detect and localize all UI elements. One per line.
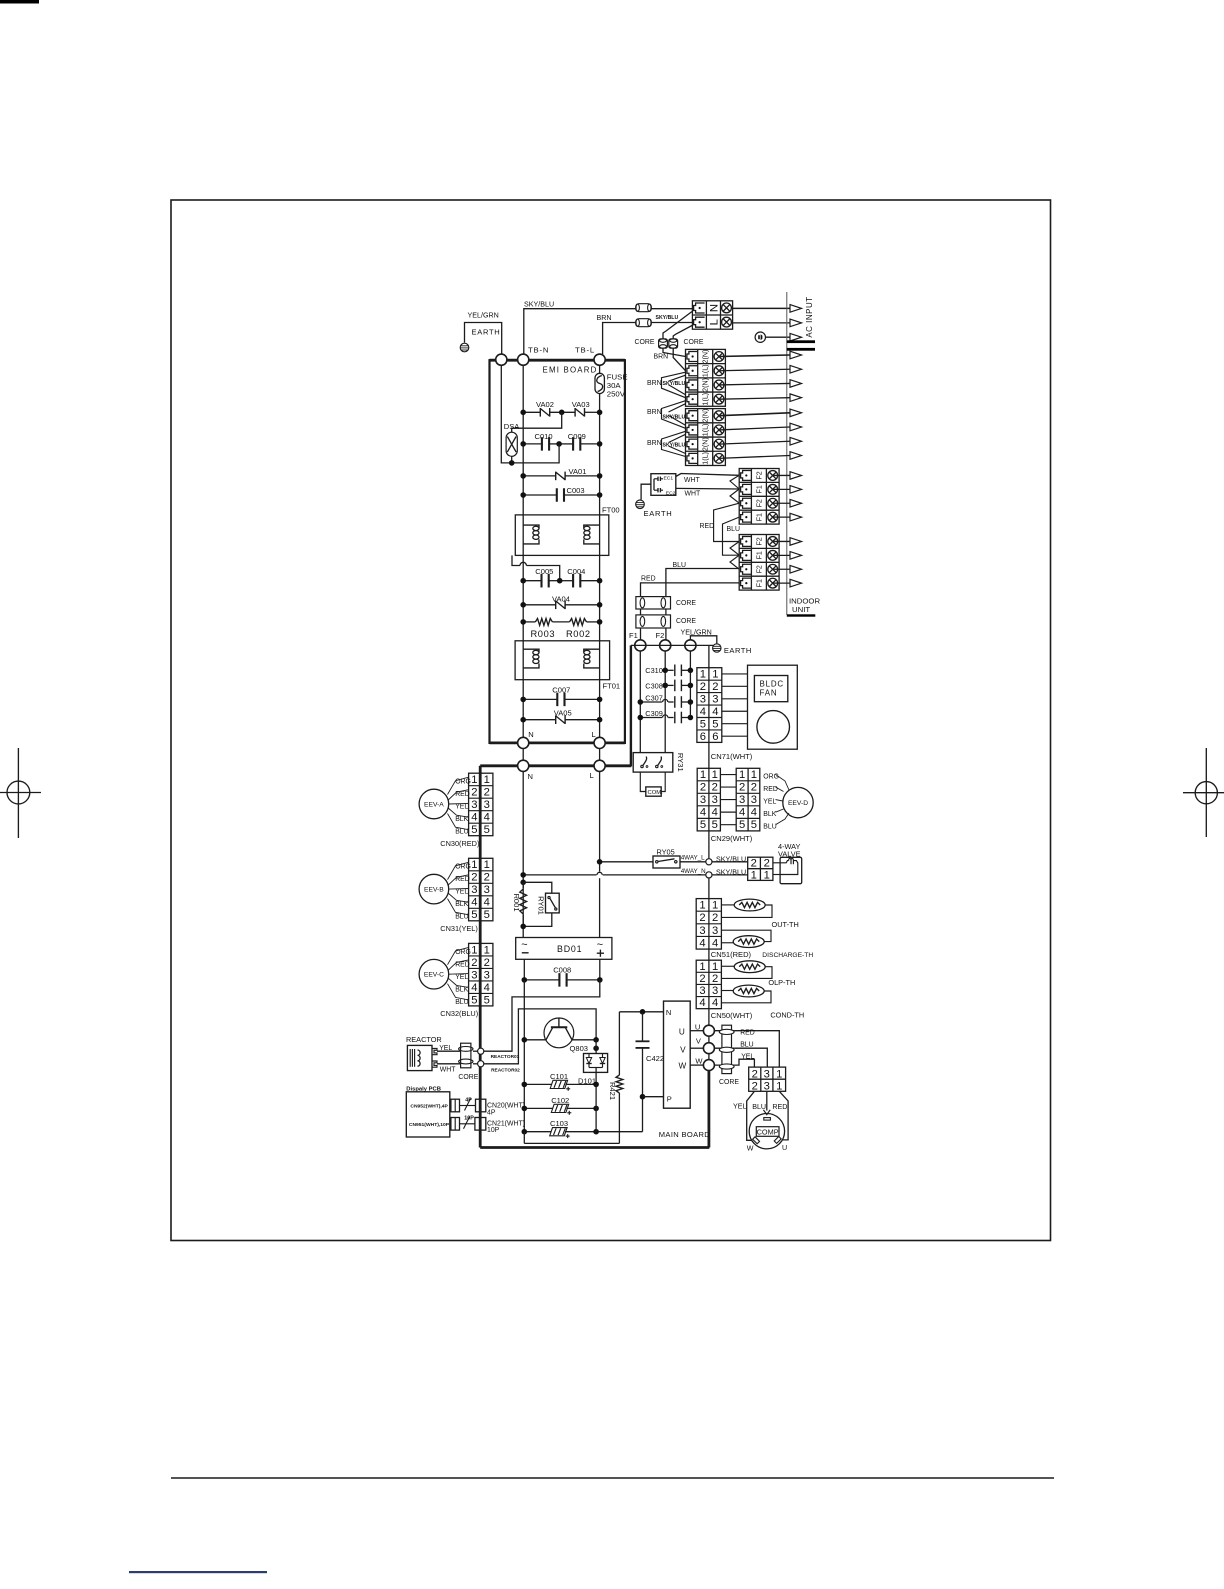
motor EEV-C with connector CN32(BLU) (469, 943, 493, 1006)
wire rail CN50 to U circle (708, 1009, 710, 1025)
wire L rail EMI upper (599, 365, 601, 373)
wire R421 to inverter N (619, 1011, 663, 1013)
wires EEV-D to labels (776, 774, 790, 790)
svg-text:BLK: BLK (763, 811, 776, 818)
main board top edge (480, 764, 631, 767)
wire BRN to block A row1 (663, 348, 686, 357)
svg-text:U: U (782, 1144, 787, 1152)
svg-text:4P: 4P (487, 1109, 496, 1116)
choke FT00 (515, 515, 609, 556)
svg-text:5: 5 (484, 824, 490, 836)
svg-text:BLDC: BLDC (760, 680, 785, 689)
svg-text:DISCHARGE-TH: DISCHARGE-TH (762, 952, 813, 959)
resistor R421 (618, 1012, 620, 1075)
F terminal block 2 (739, 535, 779, 591)
svg-text:2: 2 (764, 858, 770, 870)
page corner bar (0, 0, 39, 4)
thick bar lower (787, 348, 815, 351)
main board left edge (479, 766, 482, 1148)
svg-text:F2: F2 (755, 565, 763, 573)
links CN29 connectors (720, 774, 736, 776)
wires RY31 to COM (640, 772, 646, 791)
svg-text:BLU: BLU (727, 526, 740, 533)
svg-text:ORG: ORG (455, 949, 471, 956)
wires node to 4way terminal (712, 861, 748, 863)
svg-text:2: 2 (752, 1068, 758, 1080)
svg-text:P: P (667, 1095, 672, 1104)
wire crosslinks F block2 (730, 542, 739, 556)
svg-text:2: 2 (699, 973, 705, 985)
svg-text:YEL: YEL (741, 1054, 754, 1061)
capacitor C005 (540, 574, 542, 588)
svg-text:4: 4 (751, 807, 757, 819)
svg-text:1: 1 (764, 869, 770, 881)
svg-text:RY31: RY31 (676, 753, 685, 772)
wire 4P bus (460, 1105, 476, 1107)
wire YEL/GRN to earth (690, 636, 716, 644)
svg-text:R003: R003 (531, 629, 556, 639)
svg-text:R002: R002 (566, 629, 591, 639)
resistor R001 (522, 882, 524, 888)
svg-text:6: 6 (700, 731, 706, 743)
svg-text:1: 1 (776, 1068, 782, 1080)
wire N rail to BD01 (522, 772, 524, 938)
svg-text:1: 1 (712, 769, 718, 781)
capacitor C101 (524, 1083, 552, 1085)
display pcb box (406, 1092, 450, 1137)
svg-text:5: 5 (471, 994, 477, 1006)
svg-text:R001: R001 (512, 893, 521, 911)
wire RED inter-block (714, 503, 740, 541)
svg-text:5: 5 (484, 909, 490, 921)
node 4way L (706, 859, 712, 865)
svg-text:4: 4 (712, 706, 718, 718)
svg-text:2(N): 2(N) (702, 409, 710, 423)
svg-text:C422: C422 (646, 1054, 664, 1063)
svg-text:EC1: EC1 (664, 475, 674, 481)
indoor terminal block B (686, 409, 726, 466)
svg-text:Q803: Q803 (570, 1044, 588, 1053)
svg-text:C003: C003 (567, 486, 585, 495)
svg-text:SKY/BLU: SKY/BLU (524, 300, 554, 308)
connector CN29 board side (697, 768, 720, 831)
svg-text:BRN: BRN (647, 440, 662, 447)
svg-text:1: 1 (471, 774, 477, 786)
svg-text:1: 1 (471, 859, 477, 871)
svg-text:L: L (590, 771, 594, 780)
svg-text:6: 6 (712, 731, 718, 743)
svg-text:2: 2 (471, 787, 477, 799)
terminal TB-L circle (594, 354, 605, 365)
svg-text:TB-N: TB-N (528, 345, 549, 354)
wire EC box to earth (641, 484, 651, 499)
svg-text:F1: F1 (755, 485, 763, 493)
fuse FUSE 30A 250V (595, 373, 604, 393)
node U (703, 1025, 714, 1036)
svg-text:CN951(WHT),10P: CN951(WHT),10P (409, 1122, 450, 1128)
earth symbol top-left (460, 343, 469, 352)
node N main board (518, 760, 529, 771)
svg-text:OUT-TH: OUT-TH (772, 920, 799, 929)
svg-text:RY01: RY01 (537, 896, 546, 915)
svg-text:4: 4 (471, 812, 477, 824)
resistor R002 (570, 619, 587, 626)
svg-text:1(L): 1(L) (702, 424, 710, 437)
wire inverter W to node (690, 1064, 703, 1066)
svg-text:TB-L: TB-L (575, 345, 595, 354)
svg-text:10P: 10P (464, 1116, 474, 1122)
svg-text:DSA: DSA (504, 422, 520, 431)
wire between UVW nodes (708, 1036, 710, 1043)
wire rail to CN71 top (708, 645, 710, 667)
left registration mark (0, 748, 41, 838)
svg-text:3: 3 (712, 925, 718, 937)
box COM (646, 787, 661, 796)
svg-text:CORE: CORE (635, 339, 655, 346)
wire WHT 2 (676, 487, 739, 490)
junction R001 bottom (520, 924, 526, 930)
svg-text:4: 4 (471, 897, 477, 909)
svg-text:V: V (696, 1036, 701, 1045)
page border frame (171, 200, 1051, 1241)
svg-text:F2: F2 (755, 537, 763, 545)
svg-text:2: 2 (739, 782, 745, 794)
svg-text:4: 4 (484, 897, 490, 909)
varistor VA01 (555, 472, 557, 481)
wire BLU inter-block (723, 517, 740, 555)
svg-text:250V: 250V (607, 390, 626, 399)
svg-text:3: 3 (484, 884, 490, 896)
svg-text:EARTH: EARTH (644, 509, 673, 518)
svg-text:5: 5 (700, 718, 706, 730)
wire C422 to inverter P (643, 1096, 664, 1098)
svg-text:1: 1 (739, 769, 745, 781)
svg-text:3: 3 (712, 794, 718, 806)
svg-text:CN32(BLU): CN32(BLU) (440, 1009, 478, 1018)
svg-text:CN51(RED): CN51(RED) (711, 950, 752, 959)
terminal 2 3 1 (749, 1067, 786, 1092)
svg-text:C101: C101 (550, 1072, 568, 1081)
wires core to board nodes (473, 1050, 478, 1052)
svg-text:YEL: YEL (455, 974, 468, 981)
svg-text:N: N (528, 772, 533, 781)
svg-text:L: L (708, 319, 720, 325)
svg-text:3: 3 (471, 799, 477, 811)
reactor (407, 1045, 437, 1070)
svg-text:SKY/BLU: SKY/BLU (663, 443, 686, 449)
svg-text:BRN: BRN (647, 380, 662, 387)
svg-text:2: 2 (712, 912, 718, 924)
capacitor C102 (524, 1107, 553, 1109)
wire N bus to Q803 row (523, 980, 525, 1132)
wires F1 F2 through cores (640, 609, 642, 615)
rectifier BD01 (516, 938, 612, 960)
svg-text:BLU: BLU (752, 1103, 766, 1111)
svg-text:2: 2 (751, 782, 757, 794)
svg-text:EARTH: EARTH (724, 646, 752, 655)
wires and arrows F blocks (773, 474, 790, 476)
capacitor C309 (640, 717, 662, 719)
svg-text:YEL/GRN: YEL/GRN (468, 312, 499, 320)
svg-text:UNIT: UNIT (792, 605, 810, 614)
svg-text:2: 2 (700, 681, 706, 693)
svg-text:5: 5 (471, 909, 477, 921)
svg-text:EARTH: EARTH (472, 328, 501, 337)
svg-text:F1: F1 (629, 631, 638, 640)
node REACTOR01 (478, 1048, 484, 1054)
EMI board outline (490, 360, 625, 743)
svg-text:4P: 4P (465, 1097, 472, 1103)
svg-text:WHT: WHT (440, 1067, 457, 1074)
motor EEV-A with connector CN30(RED) (469, 773, 493, 836)
main board right rail (708, 1071, 711, 1148)
connector CN29 cable side (736, 768, 760, 831)
svg-text:YEL: YEL (763, 799, 776, 806)
footer blue bar (129, 1571, 267, 1573)
wire W through core to terminal (714, 1064, 734, 1066)
earth wire YEL/GRN (465, 323, 502, 355)
svg-text:4: 4 (699, 997, 705, 1009)
svg-text:CORE: CORE (676, 600, 696, 607)
svg-text:CN71(WHT): CN71(WHT) (711, 752, 753, 761)
svg-text:3: 3 (751, 794, 757, 806)
svg-text:FT00: FT00 (602, 506, 620, 515)
valve coil box (780, 857, 802, 883)
node W (703, 1060, 714, 1071)
earth symbol right (713, 644, 721, 652)
node YEL/GRN circle (685, 640, 696, 651)
motor EEV-B with connector CN31(YEL) (469, 858, 493, 921)
svg-text:3: 3 (764, 1081, 770, 1093)
svg-text:N: N (708, 304, 720, 312)
svg-text:2: 2 (751, 858, 757, 870)
junction dots VA row (520, 410, 526, 416)
svg-text:W: W (695, 1056, 703, 1065)
svg-text:RED: RED (641, 576, 656, 583)
svg-text:BLU: BLU (763, 824, 776, 831)
wire link BRN/SKYBLU group 1 (662, 372, 686, 398)
svg-text:3: 3 (699, 925, 705, 937)
svg-text:2: 2 (484, 787, 490, 799)
wire reactor return to D101 junction (484, 1009, 596, 1064)
svg-text:2: 2 (700, 782, 706, 794)
node REACTOR02 (478, 1061, 484, 1067)
choke FT01 (515, 641, 610, 680)
plug L (694, 317, 705, 327)
svg-text:1(L): 1(L) (702, 393, 710, 406)
svg-text:W: W (679, 1062, 687, 1071)
svg-text:F2: F2 (755, 499, 763, 507)
thermistor OUT-TH (734, 899, 765, 911)
svg-text:OLP-TH: OLP-TH (768, 978, 795, 987)
wire FT00 bypass to C005 row (512, 555, 520, 565)
connector CN50 (696, 960, 721, 1008)
power plug icon (755, 332, 765, 342)
svg-text:U: U (679, 1028, 685, 1037)
svg-text:MAIN BOARD: MAIN BOARD (659, 1130, 711, 1139)
svg-text:1: 1 (700, 669, 706, 681)
svg-text:EEV-C: EEV-C (424, 972, 444, 979)
wires CN71 to fan (722, 673, 748, 675)
svg-text:BRN: BRN (654, 354, 669, 361)
filter box EC1/EC2 (651, 474, 676, 496)
indoor terminal block A (686, 349, 726, 406)
wire 10P bus (460, 1123, 475, 1125)
node L main board (594, 760, 605, 771)
relay RY05 (653, 856, 680, 868)
wire RY05 to 4way node (680, 861, 706, 863)
svg-text:1(L): 1(L) (702, 364, 710, 377)
wire U through core to terminal (714, 1030, 734, 1032)
svg-text:C309: C309 (645, 709, 663, 718)
wires N/L plugs into cores (663, 312, 692, 340)
wire V through core to terminal (714, 1047, 734, 1049)
svg-text:BRN: BRN (647, 409, 662, 416)
wire terminal2 to comp W (747, 1091, 755, 1140)
twin ferrite cores (659, 339, 678, 348)
svg-text:4: 4 (712, 937, 718, 949)
wire rail CN29 to 4way (708, 831, 710, 859)
wire terminal3 to comp top (766, 1091, 768, 1110)
svg-text:5: 5 (700, 819, 706, 831)
relay RY31 (633, 753, 673, 773)
svg-text:3: 3 (700, 794, 706, 806)
svg-text:5: 5 (712, 718, 718, 730)
svg-text:SKY/BLU: SKY/BLU (663, 381, 686, 387)
wire YEL/GRN vertical (689, 651, 691, 717)
wire N to 4way node (523, 874, 596, 876)
wire reactor WHT (437, 1063, 461, 1065)
svg-text:1: 1 (484, 774, 490, 786)
node V (703, 1043, 714, 1054)
svg-text:4: 4 (699, 937, 705, 949)
svg-text:2: 2 (712, 973, 718, 985)
svg-text:3: 3 (700, 693, 706, 705)
plug N (694, 303, 705, 313)
svg-text:BLU: BLU (740, 1042, 753, 1049)
wire terminal1 to comp U (779, 1091, 788, 1140)
motor EEV-D (783, 787, 813, 817)
svg-text:2: 2 (484, 957, 490, 969)
svg-text:5: 5 (712, 819, 718, 831)
svg-text:2: 2 (712, 681, 718, 693)
svg-text:5: 5 (471, 824, 477, 836)
wire rail 4way to CN51 (708, 878, 710, 899)
svg-text:ORG: ORG (455, 864, 471, 871)
wire L rail EMI lower (599, 394, 601, 738)
wire L rail to RY05 (600, 861, 653, 863)
arrow AC input N (790, 305, 802, 313)
node L on EMI bottom (594, 737, 605, 748)
svg-text:VA03: VA03 (572, 400, 590, 409)
wire D101 to C101 C103 (595, 1084, 597, 1131)
svg-text:VA04: VA04 (552, 594, 570, 603)
svg-text:EEV-B: EEV-B (424, 887, 444, 894)
svg-text:YEL: YEL (733, 1103, 747, 1111)
screw N (722, 303, 732, 313)
svg-text:C308: C308 (645, 681, 663, 690)
svg-text:2(N): 2(N) (702, 437, 710, 451)
svg-text:C310: C310 (645, 666, 663, 675)
wire BRN from TB-L (603, 323, 636, 355)
wire core to L plug (651, 322, 692, 324)
capacitor C003 (556, 488, 558, 502)
svg-text:4WAY_L: 4WAY_L (681, 855, 705, 862)
capacitor C103 (524, 1131, 551, 1133)
svg-text:4: 4 (700, 706, 706, 718)
svg-text:CORE: CORE (458, 1074, 478, 1081)
thermistor COND-TH (733, 985, 764, 997)
svg-text:VA01: VA01 (569, 467, 587, 476)
svg-text:2: 2 (699, 912, 705, 924)
svg-text:1(L): 1(L) (702, 452, 710, 465)
node earth circle on EMI board (496, 354, 507, 365)
wire WHT 1 (676, 474, 739, 477)
svg-text:2: 2 (712, 782, 718, 794)
svg-text:CORE: CORE (684, 339, 704, 346)
capacitor C007 (556, 693, 558, 707)
wires and arrows block A and B (719, 355, 790, 357)
svg-text:4: 4 (484, 982, 490, 994)
wire RED from F1 (641, 583, 740, 596)
svg-text:2: 2 (471, 872, 477, 884)
junction R001 top (520, 880, 526, 886)
thermistor DISCHARGE-TH (733, 936, 764, 948)
arrow AC input L (790, 319, 802, 327)
svg-text:1: 1 (751, 769, 757, 781)
svg-text:EEV-A: EEV-A (424, 801, 444, 808)
svg-text:4WAY_N: 4WAY_N (681, 868, 706, 875)
svg-text:BRN: BRN (597, 314, 612, 322)
svg-text:4: 4 (700, 807, 706, 819)
svg-text:L: L (592, 730, 596, 739)
svg-text:REACTOR01: REACTOR01 (491, 1054, 520, 1060)
svg-text:YEL: YEL (455, 889, 468, 896)
motor BLDC FAN (748, 665, 798, 749)
earth symbol EC (636, 500, 645, 509)
junction dots C row (520, 441, 526, 447)
core on F wires upper (636, 597, 671, 609)
svg-text:4: 4 (712, 997, 718, 1009)
svg-text:EEV-D: EEV-D (788, 800, 808, 807)
terminal TB-N circle (518, 354, 529, 365)
svg-text:CORE: CORE (676, 618, 696, 625)
svg-text:RED: RED (740, 1030, 755, 1037)
wire N to main board (522, 749, 524, 761)
connector CN51 (696, 899, 721, 949)
indoor unit underline (787, 614, 816, 616)
svg-text:~: ~ (597, 939, 603, 951)
svg-text:3: 3 (699, 985, 705, 997)
compressor COMP (749, 1114, 784, 1149)
screw L (722, 317, 732, 327)
wire N screw to arrow (731, 307, 789, 309)
transistor Q803 (524, 1018, 596, 1048)
varistor VA02 (539, 408, 541, 417)
svg-text:5: 5 (739, 819, 745, 831)
svg-text:F1: F1 (755, 579, 763, 587)
relay RY01 (523, 882, 552, 893)
core on UVW wires (719, 1025, 734, 1073)
svg-text:WHT: WHT (685, 490, 702, 497)
wire BD01 plus down (599, 959, 601, 980)
capacitor C004 (572, 574, 574, 588)
svg-text:YEL: YEL (455, 804, 468, 811)
svg-text:10P: 10P (487, 1127, 500, 1134)
main board bottom edge (480, 1146, 709, 1149)
wire core to N plug (651, 308, 692, 310)
svg-text:EMI BOARD: EMI BOARD (543, 366, 598, 375)
